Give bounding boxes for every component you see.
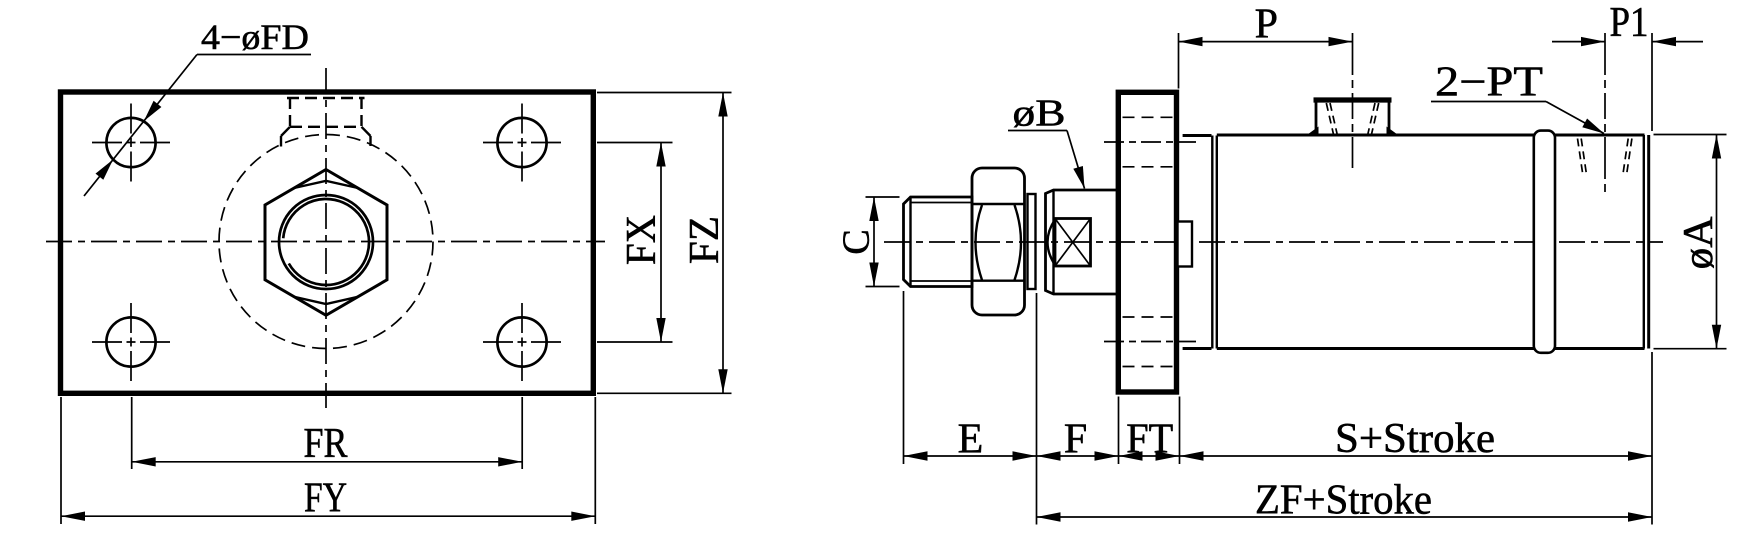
hex chamfer top [294, 181, 358, 188]
mounting flange (side view) [1118, 92, 1176, 392]
dimension FX [597, 143, 673, 343]
svg-text:C: C [836, 229, 878, 254]
rod bore thread circle [283, 199, 369, 285]
mounting hole top-left [92, 104, 170, 182]
label oB [1008, 93, 1085, 189]
svg-text:F: F [1064, 417, 1087, 463]
hex chamfer bottom [294, 297, 358, 304]
cylinder head [1183, 136, 1217, 349]
gland outer circle [279, 195, 373, 289]
dimension FT [1119, 417, 1180, 463]
dimension S+Stroke [1180, 416, 1653, 462]
mounting hole bottom-left [92, 303, 170, 381]
vertical center line [325, 68, 327, 408]
label 2-PT [1431, 60, 1604, 134]
svg-text:FX: FX [619, 215, 665, 265]
mounting hole bottom-right [483, 303, 561, 381]
svg-text:P1: P1 [1610, 0, 1649, 46]
dimension E [904, 417, 1037, 463]
extension lines bottom row [904, 291, 1653, 525]
dimension P1 [1552, 0, 1703, 131]
svg-text:FR: FR [304, 421, 348, 467]
dimension oA [1654, 135, 1727, 349]
svg-text:E: E [958, 417, 984, 463]
svg-text:øA: øA [1676, 216, 1722, 270]
svg-text:S+Stroke: S+Stroke [1335, 416, 1495, 462]
main center line (side view) [884, 241, 1663, 243]
rod boss (oB housing) [1046, 190, 1117, 294]
bolt circle (dashed) [219, 135, 433, 349]
rod clevis cross box [1048, 219, 1091, 267]
svg-text:FT: FT [1126, 417, 1173, 463]
weld ring [1534, 131, 1555, 353]
cylinder tube outline [1217, 135, 1645, 349]
svg-text:4−øFD: 4−øFD [201, 17, 309, 57]
dimension FR [132, 397, 523, 469]
svg-text:P: P [1255, 2, 1278, 48]
svg-text:2−PT: 2−PT [1435, 60, 1543, 106]
dimension F [1037, 417, 1119, 463]
svg-text:FY: FY [304, 476, 347, 522]
end port (2-PT, hidden) [1578, 33, 1632, 192]
flange plate outline (front view) [61, 92, 594, 393]
mounting hole top-right [483, 104, 561, 182]
dimension FZ [597, 93, 732, 394]
hex gland nut (front view) [265, 170, 387, 316]
leader 4-oFD [84, 17, 311, 196]
threaded rod end [904, 197, 973, 287]
dimension ZF+Stroke [1037, 478, 1653, 524]
flange hole center lines [1104, 142, 1196, 342]
dimension FY [61, 397, 595, 524]
svg-text:FZ: FZ [682, 216, 728, 264]
svg-text:ZF+Stroke: ZF+Stroke [1255, 478, 1432, 524]
top port boss (side view) [1306, 33, 1400, 168]
horizontal center line [46, 241, 605, 243]
cylinder right end cap [1644, 135, 1649, 349]
washer [1028, 194, 1036, 289]
svg-text:øB: øB [1013, 93, 1066, 135]
key tab on flange [1178, 222, 1193, 267]
flange hidden hole lines [1123, 117, 1174, 366]
dimension C [836, 197, 900, 287]
top port boss (front view, hidden) [281, 98, 371, 147]
hex rod nut (side view) [972, 168, 1025, 315]
dimension P [1179, 2, 1353, 89]
